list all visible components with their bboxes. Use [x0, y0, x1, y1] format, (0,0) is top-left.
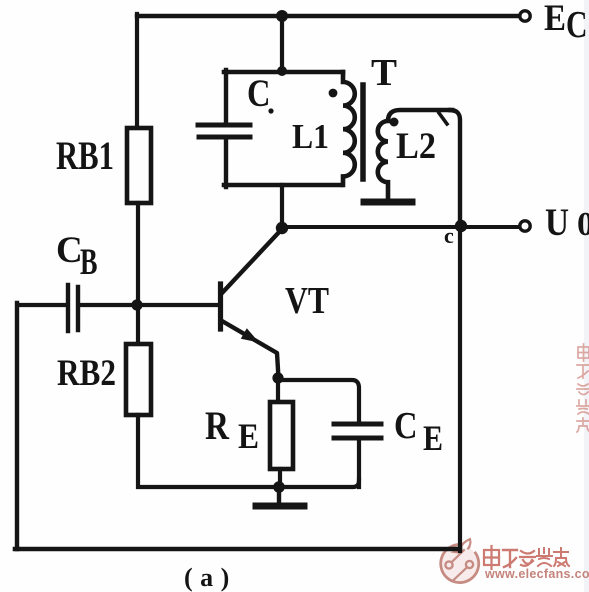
capacitor CB: [66, 285, 70, 331]
svg-text:E: E: [544, 0, 566, 39]
svg-text:RB2: RB2: [57, 353, 116, 394]
terminal U0: [520, 221, 530, 231]
wire CB to left edge: [19, 303, 66, 307]
watermark vertical right edge: [577, 344, 589, 432]
capacitor C (tank): box frame: [224, 70, 343, 75]
inductor L1: [343, 72, 355, 185]
svg-text:c: c: [444, 223, 454, 248]
svg-text:VT: VT: [285, 280, 329, 322]
svg-text:T: T: [371, 52, 397, 94]
inductor L2: [378, 110, 452, 198]
svg-text:www.elecfans.com: www.elecfans.com: [484, 567, 589, 581]
svg-text:C: C: [56, 230, 83, 271]
wire RB2 down and right to ground node: [138, 415, 279, 487]
node junction top rail / tank: [276, 10, 288, 22]
wire output line U0: [282, 225, 519, 229]
svg-text:E: E: [238, 416, 259, 456]
svg-text:RB1: RB1: [56, 133, 114, 178]
svg-text:B: B: [80, 242, 98, 283]
capacitor C (tank): plates: [198, 123, 250, 128]
svg-text:U: U: [545, 201, 569, 244]
svg-text:0: 0: [577, 206, 589, 243]
wire tank bottom to collector node: [280, 185, 284, 228]
node U0 branch: [455, 220, 467, 232]
svg-text:E: E: [423, 418, 443, 458]
terminal EC: [520, 11, 530, 21]
transistor VT emitter arrow: [241, 328, 259, 342]
node collector: [276, 222, 288, 234]
capacitor CE: [334, 422, 381, 427]
tick mark near L2: [439, 113, 447, 124]
svg-text:L1: L1: [292, 117, 329, 156]
ground under L2: [364, 199, 412, 206]
node tank top: [277, 66, 287, 76]
phase dot L1: [329, 89, 338, 98]
wire CB to transistor base: [80, 303, 218, 307]
wire emitter junction to RE: [276, 378, 280, 402]
transistor VT collector: [222, 229, 282, 293]
watermark text elecfans: [484, 546, 589, 581]
svg-text:C: C: [247, 72, 271, 115]
wire top rail down to tank: [280, 16, 284, 70]
node ground junction: [273, 481, 285, 493]
svg-text:(a): (a): [184, 563, 237, 592]
svg-text:C: C: [394, 405, 418, 447]
ground: [277, 487, 281, 503]
wire bottom outer: [15, 547, 460, 552]
wire RB1 to RB2 through base node: [136, 203, 140, 344]
wire top supply rail: [137, 14, 519, 18]
resistor RB1: [127, 128, 151, 203]
transformer core T: [360, 85, 366, 179]
node base junction: [131, 299, 142, 310]
wire emitter branch to CE: [278, 380, 359, 422]
resistor RE: [270, 402, 293, 469]
transistor VT emitter: [222, 321, 279, 378]
svg-text:R: R: [205, 403, 230, 448]
wire left vertical: top rail to RB1: [135, 14, 139, 130]
wire right outer vertical: U0 node to bottom: [458, 226, 462, 551]
wire L2 top corner to U0 node: [450, 110, 460, 224]
wire CE bottom: [357, 440, 361, 487]
phase dot L2: [390, 118, 399, 127]
watermark logo elecfans: [441, 539, 479, 583]
page right edge shade: [584, 0, 589, 592]
transistor VT base bar: [218, 284, 223, 329]
wire left outer vertical: [15, 303, 19, 549]
wire RE to ground node: [278, 469, 282, 487]
resistor RB2: [126, 344, 151, 415]
svg-text:C: C: [566, 4, 588, 46]
node emitter junction: [272, 372, 283, 383]
svg-text:L2: L2: [396, 126, 436, 167]
